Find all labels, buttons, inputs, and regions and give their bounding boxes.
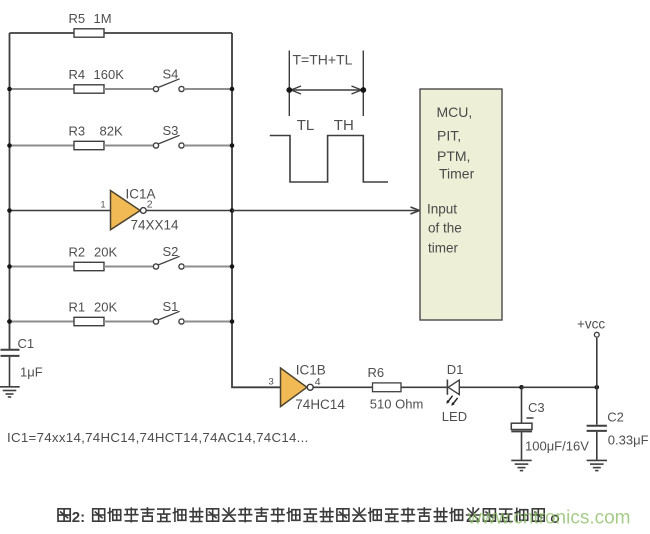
- svg-text:LED: LED: [442, 409, 467, 424]
- svg-text:R2: R2: [69, 245, 86, 260]
- node: left rail / R2 junction: [7, 264, 12, 269]
- node: left rail / R1 junction: [7, 319, 12, 324]
- switch S2: [153, 244, 184, 269]
- wire: D1 to C3 node: [459, 386, 521, 388]
- node: left rail / R1 junction (to C1): [7, 319, 12, 324]
- wire: R3 row middle segment: [104, 145, 153, 147]
- svg-text:20K: 20K: [94, 245, 117, 260]
- node: right rail / R3 junction: [230, 143, 235, 148]
- resistor R1 20K: [69, 300, 118, 326]
- svg-text:TL: TL: [297, 117, 315, 134]
- resistor R2 20K: [69, 245, 118, 271]
- svg-text:160K: 160K: [94, 67, 125, 82]
- node: VCC junction: [595, 385, 600, 390]
- svg-text:100μF/16V: 100μF/16V: [525, 439, 589, 454]
- wire: R3 row left segment: [10, 145, 75, 147]
- svg-text:3: 3: [269, 377, 274, 388]
- ground (below C3): [511, 460, 531, 470]
- svg-text:S3: S3: [163, 123, 179, 138]
- diode D1 LED (cathode left): [442, 362, 467, 424]
- wire: R1 row left segment: [10, 321, 75, 323]
- resistor R5 1M: [69, 11, 112, 37]
- svg-text:74HC14: 74HC14: [295, 397, 345, 412]
- wire: R2 row right segment: [184, 266, 232, 268]
- ground (below C1): [0, 387, 20, 397]
- svg-text:R5: R5: [69, 11, 86, 26]
- op-amp U2: inverter IC1B 74HC14: [281, 362, 346, 412]
- timing diagram: period bracket right bar: [362, 51, 364, 117]
- svg-text:0.33μF: 0.33μF: [608, 433, 649, 448]
- capacitor C2 0.33uF: [587, 410, 649, 448]
- capacitor C3 100uF/16V (electrolytic): [511, 400, 589, 454]
- node: right rail / R1 junction: [230, 319, 235, 324]
- switch S1: [153, 299, 184, 324]
- svg-text:Input: Input: [427, 202, 457, 217]
- node: left rail / IC1A junction: [7, 208, 12, 213]
- wire: node down to C2: [596, 387, 598, 424]
- wire: C3 node to VCC node: [522, 386, 597, 388]
- wire: IC1B output to R6: [313, 386, 372, 388]
- wire: R4 row middle segment: [104, 88, 153, 90]
- svg-text:C3: C3: [528, 400, 545, 415]
- wire: top horizontal (R5 row): [10, 32, 75, 34]
- capacitor C1 1uF: [1, 336, 43, 379]
- resistor R3 82K: [69, 124, 123, 150]
- svg-text:R1: R1: [69, 300, 86, 315]
- svg-text:PIT,: PIT,: [437, 128, 461, 144]
- wire: node down to C3: [521, 387, 523, 423]
- svg-text:www.cntronics.com: www.cntronics.com: [467, 508, 631, 529]
- node: right rail / R2 junction: [230, 264, 235, 269]
- wire: C3 to ground: [521, 432, 523, 460]
- MCU / timer block: [420, 89, 502, 320]
- wire: IC1A input (pin 1): [10, 210, 111, 212]
- svg-text:1μF: 1μF: [20, 364, 43, 379]
- wire: right vertical rail down to IC1B row: [232, 33, 281, 387]
- switch S4: [153, 67, 184, 92]
- wire: R1 row right segment: [184, 321, 232, 323]
- svg-text:74XX14: 74XX14: [131, 218, 180, 233]
- node: dimension dot right: [360, 87, 366, 93]
- wire: IC1A output to right rail: [146, 210, 232, 212]
- svg-text:R6: R6: [368, 365, 385, 380]
- wire: +vcc to node: [596, 338, 598, 388]
- timing diagram: double arrow dimension line: [291, 89, 362, 91]
- waveform square wave: [270, 136, 388, 183]
- svg-text:IC1B: IC1B: [296, 362, 326, 377]
- svg-text:2:: 2:: [72, 509, 85, 526]
- node: left rail / R4 junction: [7, 87, 12, 92]
- wire: R4 row right segment: [184, 88, 232, 90]
- svg-text:1: 1: [101, 200, 106, 210]
- op-amp U1: inverter IC1A 74XX14: [111, 187, 180, 233]
- wire: R2 row left segment: [10, 266, 75, 268]
- svg-text:MCU,: MCU,: [437, 104, 473, 120]
- svg-text:+vcc: +vcc: [577, 317, 605, 332]
- svg-text:T=TH+TL: T=TH+TL: [293, 52, 353, 68]
- svg-text:PTM,: PTM,: [437, 148, 470, 164]
- svg-text:C2: C2: [607, 410, 624, 425]
- wire: R4 row left segment: [10, 88, 75, 90]
- ground (below C2): [587, 460, 607, 470]
- wire: C1 to ground: [9, 357, 11, 386]
- resistor R6 510 Ohm: [368, 365, 424, 412]
- svg-text:510 Ohm: 510 Ohm: [370, 397, 423, 412]
- svg-text:2: 2: [147, 199, 153, 211]
- wire: R6 to D1: [401, 386, 447, 388]
- node: left rail / R3 junction: [7, 143, 12, 148]
- caption: figure 2 description (CJK drawn as vector strokes): [58, 508, 558, 526]
- wire: R1 row middle segment: [104, 321, 153, 323]
- svg-text:of the: of the: [428, 221, 462, 236]
- wire: R3 row right segment: [184, 145, 232, 147]
- svg-text:timer: timer: [428, 241, 459, 256]
- svg-text:C1: C1: [18, 336, 35, 351]
- svg-text:S1: S1: [163, 299, 179, 314]
- svg-text:Timer: Timer: [439, 166, 475, 182]
- timing diagram: period bracket left bar: [288, 51, 290, 117]
- wire: R2 row middle segment: [104, 266, 153, 268]
- svg-text:4: 4: [315, 376, 321, 388]
- svg-text:R3: R3: [69, 124, 86, 139]
- wire: left vertical rail: [9, 33, 11, 349]
- node: C3 junction: [519, 385, 524, 390]
- svg-text:D1: D1: [447, 362, 464, 377]
- svg-text:TH: TH: [334, 117, 354, 134]
- +vcc terminal: [577, 317, 605, 338]
- svg-text:S2: S2: [163, 244, 179, 259]
- svg-text:R4: R4: [69, 67, 86, 82]
- wire: C2 to ground: [596, 432, 598, 460]
- node: dimension dot left: [286, 87, 292, 93]
- svg-text:IC1=74xx14,74HC14,74HCT14,74AC: IC1=74xx14,74HC14,74HCT14,74AC14,74C14..…: [7, 430, 309, 445]
- svg-text:20K: 20K: [94, 300, 117, 315]
- svg-text:S4: S4: [163, 67, 179, 82]
- svg-text:1M: 1M: [94, 11, 112, 26]
- node: right rail / R4 junction: [230, 87, 235, 92]
- node: right rail / IC1A output junction: [230, 208, 235, 213]
- wire: arrow from junction to MCU box (Input of the timer): [232, 210, 419, 212]
- resistor R4 160K: [69, 67, 125, 93]
- svg-text:82K: 82K: [100, 124, 123, 139]
- switch S3: [153, 123, 184, 148]
